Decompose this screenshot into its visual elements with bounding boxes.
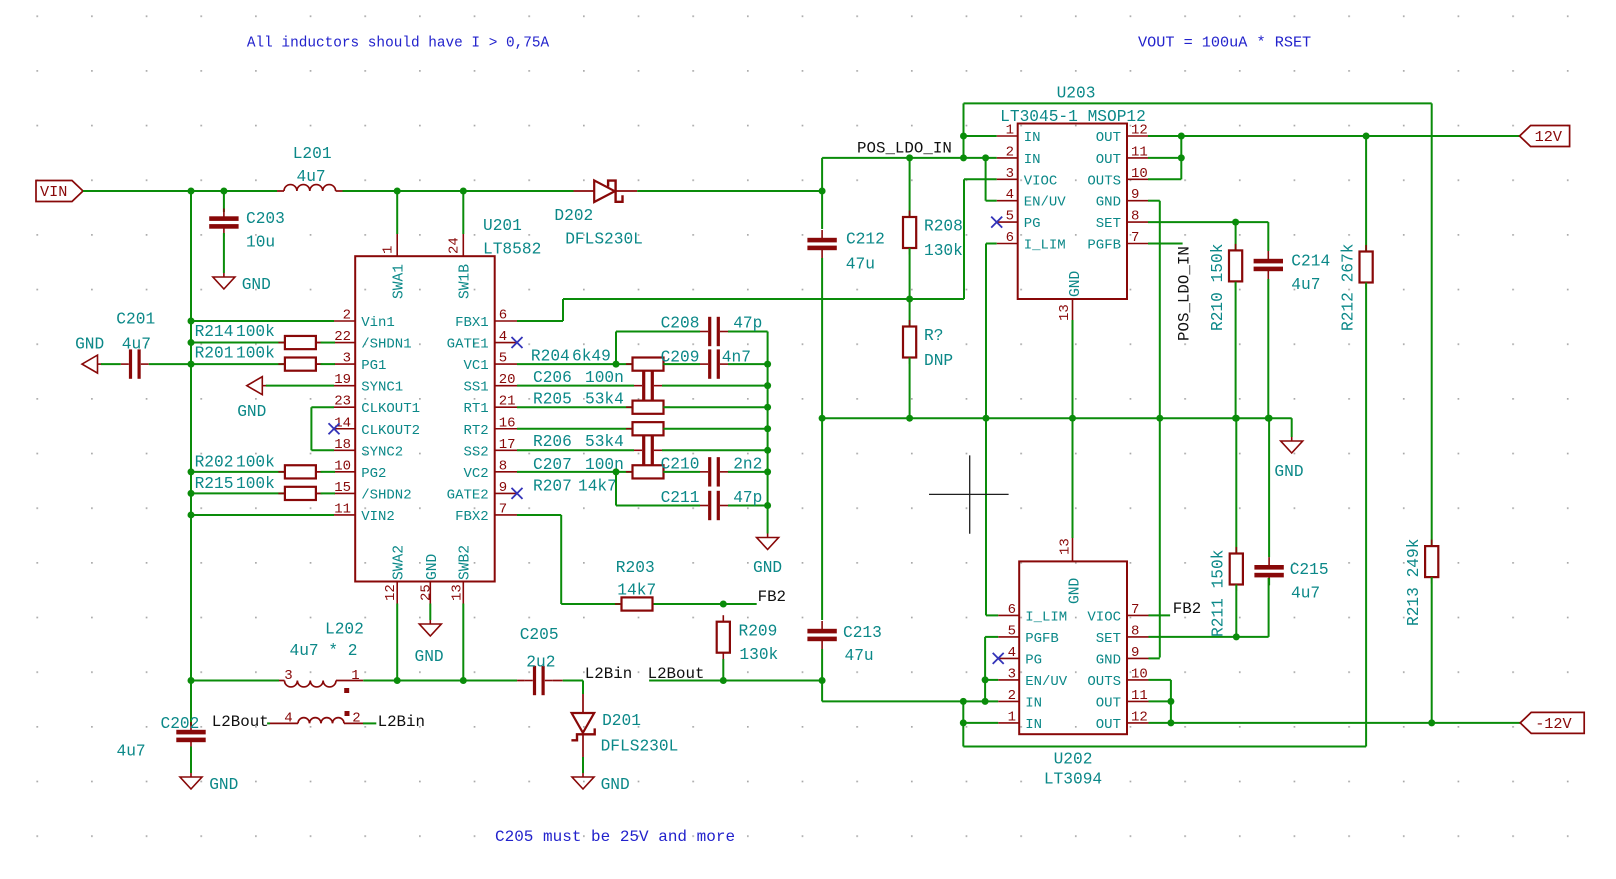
svg-text:R206: R206 [533, 433, 572, 451]
svg-text:SWA1: SWA1 [391, 264, 407, 299]
wire [517, 514, 561, 516]
no-connect GATE1 [512, 337, 523, 348]
wire [963, 722, 998, 724]
wire [821, 158, 823, 229]
wire [321, 471, 336, 473]
svg-text:C214: C214 [1291, 253, 1330, 271]
wire C212 to gnd bus [821, 258, 823, 418]
wire [191, 320, 334, 322]
svg-text:5: 5 [1006, 209, 1014, 225]
ground (bus) [1291, 437, 1293, 441]
wire SWA2 down [396, 604, 398, 681]
junction SWA1 [394, 188, 401, 195]
svg-text:23: 23 [334, 394, 351, 410]
svg-text:SWA2: SWA2 [391, 545, 407, 580]
wire [662, 385, 768, 387]
wire to pin24 [462, 191, 464, 234]
wire [149, 363, 191, 365]
svg-text:I_LIM: I_LIM [1025, 609, 1067, 625]
pin stub [334, 428, 355, 430]
svg-text:12V: 12V [1535, 128, 1563, 146]
junction [188, 511, 195, 518]
wire [663, 428, 767, 430]
svg-text:VOUT = 100uA * RSET: VOUT = 100uA * RSET [1138, 34, 1311, 52]
resistor R204 6k49 [626, 363, 670, 365]
svg-text:FB2: FB2 [758, 588, 786, 606]
wire [1170, 680, 1172, 723]
svg-text:53k4: 53k4 [585, 433, 624, 451]
svg-text:2: 2 [1006, 144, 1014, 160]
wire FBX1 up to U203 VIOC [963, 179, 965, 299]
wire [311, 406, 334, 408]
wire [223, 233, 225, 273]
svg-text:R209: R209 [739, 623, 778, 641]
svg-text:1: 1 [351, 668, 359, 684]
svg-text:130k: 130k [924, 242, 963, 260]
junction SW1B [460, 188, 467, 195]
junction gnd bus / C212 [819, 415, 826, 422]
svg-text:2: 2 [343, 308, 351, 324]
junction FBX1/R208 [906, 296, 913, 303]
svg-text:3: 3 [1006, 166, 1014, 182]
wire [1180, 136, 1182, 179]
wire L202 to C205 [363, 680, 517, 682]
svg-text:100k: 100k [236, 454, 275, 472]
junction gnd bus / R210 [1232, 415, 1239, 422]
svg-text:R215: R215 [195, 475, 234, 493]
ground (U201 pin25) [429, 620, 431, 624]
junction gnd bus / R211 [1233, 415, 1240, 422]
svg-text:VIOC: VIOC [1024, 173, 1058, 189]
svg-text:24: 24 [447, 237, 463, 254]
svg-text:SYNC1: SYNC1 [361, 380, 403, 396]
junction EN/UV tie [982, 154, 989, 161]
svg-text:4: 4 [499, 329, 507, 345]
svg-text:6k49: 6k49 [572, 348, 611, 366]
pin stub [998, 657, 1019, 659]
svg-text:VC2: VC2 [463, 466, 488, 482]
crosshair cursor [929, 455, 1009, 533]
svg-text:D202: D202 [554, 207, 593, 225]
resistor R213 249k [1431, 540, 1433, 584]
svg-text:C205: C205 [520, 626, 559, 644]
svg-text:20: 20 [499, 372, 516, 388]
wire [562, 299, 564, 321]
svg-text:47p: 47p [733, 489, 762, 507]
svg-text:18: 18 [334, 437, 351, 453]
wire [191, 342, 285, 344]
junction [764, 468, 771, 475]
wire [191, 471, 285, 473]
svg-text:L2Bout: L2Bout [212, 713, 269, 731]
junction [188, 490, 195, 497]
pin stub [616, 190, 638, 192]
pin stub [334, 514, 355, 516]
svg-text:6: 6 [499, 308, 507, 324]
svg-text:IN: IN [1025, 695, 1042, 711]
wire [363, 722, 376, 724]
wire [1235, 418, 1237, 553]
junction [188, 318, 195, 325]
wire to pin1 [396, 191, 398, 234]
ground (C202) [190, 773, 192, 777]
junction OUT pin12 [1178, 133, 1185, 140]
wire [728, 471, 768, 473]
svg-text:R213 249k: R213 249k [1405, 539, 1423, 626]
wire [722, 659, 724, 681]
svg-text:IN: IN [1025, 717, 1042, 733]
wire [1235, 585, 1237, 637]
svg-text:GATE1: GATE1 [447, 337, 489, 353]
wire [985, 158, 987, 201]
pin stub [1127, 679, 1149, 681]
svg-text:25: 25 [418, 584, 434, 601]
resistor R203 14k7 [615, 603, 659, 605]
wire [191, 492, 285, 494]
wire [517, 320, 563, 322]
svg-text:L201: L201 [293, 145, 332, 163]
svg-text:R203: R203 [616, 559, 655, 577]
wire [964, 102, 1432, 104]
wire [909, 358, 911, 419]
ground below C203 [223, 273, 225, 277]
svg-text:47u: 47u [846, 256, 875, 274]
svg-text:3: 3 [343, 351, 351, 367]
svg-text:2: 2 [1008, 688, 1016, 704]
svg-text:RT2: RT2 [463, 423, 488, 439]
svg-text:GND: GND [1068, 270, 1084, 297]
svg-text:SET: SET [1096, 216, 1121, 232]
wire C208 left leg [615, 332, 617, 365]
wire IN rail down [962, 701, 964, 746]
resistor R209 130k [722, 615, 724, 659]
wire [101, 363, 121, 365]
junction R211 bottom [1233, 633, 1240, 640]
pin stub [495, 514, 517, 516]
svg-text:C212: C212 [846, 231, 885, 249]
svg-text:CLKOUT1: CLKOUT1 [361, 401, 420, 417]
wire [662, 449, 768, 451]
junction R209 top [720, 601, 727, 608]
svg-text:L2Bin: L2Bin [378, 713, 425, 731]
svg-text:FBX1: FBX1 [455, 315, 489, 331]
svg-text:GND: GND [1068, 577, 1084, 604]
pin stub [998, 614, 1019, 616]
pin stub [316, 471, 321, 473]
svg-text:All inductors should have I >: All inductors should have I > 0,75A [247, 36, 550, 52]
wire [728, 331, 768, 333]
svg-text:GND: GND [425, 553, 441, 580]
wire C211 left leg [615, 472, 617, 506]
junction IN1 [960, 719, 967, 726]
wire [663, 363, 700, 365]
pin stub [336, 190, 343, 192]
junction OUT pin11 (U202) [1167, 698, 1174, 705]
svg-text:7: 7 [1131, 230, 1139, 246]
svg-text:6: 6 [1006, 230, 1014, 246]
wire [517, 428, 633, 430]
svg-text:/SHDN1: /SHDN1 [361, 337, 411, 353]
wire [909, 248, 911, 299]
wire [517, 471, 633, 473]
svg-text:100n: 100n [585, 369, 624, 387]
wire [311, 449, 334, 451]
svg-text:14k7: 14k7 [578, 477, 617, 495]
wire C205 to L2Bin corner [563, 680, 583, 682]
svg-text:12: 12 [1131, 709, 1148, 725]
wire [1235, 282, 1237, 418]
svg-text:-12V: -12V [1535, 715, 1572, 733]
svg-text:R214: R214 [195, 323, 234, 341]
pin stub [334, 406, 355, 408]
svg-text:EN/UV: EN/UV [1025, 674, 1068, 690]
pin stub [582, 694, 584, 713]
junction OUT pin12 (U202) [1167, 719, 1174, 726]
svg-text:14k7: 14k7 [617, 582, 656, 600]
svg-text:47u: 47u [845, 647, 874, 665]
pin stub [998, 700, 1019, 702]
pin stub [396, 582, 398, 604]
svg-text:OUT: OUT [1096, 152, 1121, 168]
pin stub [1127, 700, 1149, 702]
wire [663, 471, 700, 473]
svg-text:22: 22 [334, 329, 351, 345]
svg-text:5: 5 [1008, 623, 1016, 639]
svg-text:17: 17 [499, 437, 516, 453]
wire VIOC row [964, 178, 997, 180]
svg-text:47p: 47p [733, 314, 762, 332]
wire [728, 505, 768, 507]
wire [310, 407, 312, 450]
pin stub [495, 471, 517, 473]
pin stub [334, 363, 355, 365]
svg-text:C213: C213 [843, 624, 882, 642]
svg-text:15: 15 [334, 480, 351, 496]
junction gnd bus / RDNP [906, 415, 913, 422]
svg-text:8: 8 [1131, 209, 1139, 225]
wire [321, 492, 336, 494]
svg-text:OUTS: OUTS [1087, 674, 1121, 690]
wire [1149, 679, 1171, 681]
pin stub [334, 342, 355, 344]
pin stub [316, 342, 321, 344]
wire [223, 191, 225, 212]
svg-text:PG: PG [1025, 652, 1042, 668]
svg-text:PGFB: PGFB [1025, 631, 1059, 647]
junction gnd bus / C215 [1266, 415, 1273, 422]
wire [190, 747, 192, 774]
svg-text:U201: U201 [483, 217, 522, 235]
junction [764, 502, 771, 509]
pin stub [997, 200, 1018, 202]
wire [191, 680, 279, 682]
wire [1149, 700, 1171, 702]
pin stub [495, 320, 517, 322]
svg-text:U203: U203 [1057, 85, 1096, 103]
junction C208 leg [613, 361, 620, 368]
junction R212 top [1363, 133, 1370, 140]
svg-text:C211: C211 [661, 489, 700, 507]
pin stub [1127, 657, 1149, 659]
pin stub [997, 243, 1018, 245]
junction POS_LDO_IN tap [819, 188, 826, 195]
wire [517, 385, 634, 387]
pin stub [316, 492, 321, 494]
pin stub [396, 234, 398, 256]
wire [560, 515, 562, 604]
wire [1431, 577, 1433, 723]
pin stub [316, 363, 321, 365]
wire VIN to L201 [83, 190, 277, 192]
global label VIN [36, 181, 83, 202]
wire [663, 406, 767, 408]
wire [616, 505, 700, 507]
svg-text:10: 10 [1131, 666, 1148, 682]
wire [986, 200, 997, 202]
svg-text:5: 5 [499, 351, 507, 367]
wire [517, 363, 633, 365]
svg-text:6: 6 [1008, 602, 1016, 618]
junction C202 tap [188, 677, 195, 684]
wire pin1 row [964, 135, 997, 137]
svg-text:R207: R207 [533, 477, 572, 495]
junction SWA2 [394, 677, 401, 684]
svg-text:DFLS230L: DFLS230L [565, 230, 643, 248]
pin stub [279, 680, 285, 682]
junction gnd bus / pin9 [1156, 415, 1163, 422]
junction IN rail [960, 698, 967, 705]
svg-text:R202: R202 [195, 454, 234, 472]
wire C213 to L2Bout row [821, 649, 823, 701]
svg-text:4u7: 4u7 [122, 336, 151, 354]
wire [986, 243, 997, 245]
svg-text:RT1: RT1 [463, 401, 488, 417]
pin stub [997, 221, 1018, 223]
wire [563, 298, 964, 300]
pin stub [997, 135, 1018, 137]
wire top loop down to R213 [1431, 103, 1433, 546]
svg-text:VC1: VC1 [463, 358, 488, 374]
ground (cluster) [767, 534, 769, 538]
wire [767, 332, 769, 534]
junction R209 bottom [720, 677, 727, 684]
wire [191, 363, 285, 365]
junction OUT pin11 [1178, 154, 1185, 161]
pin stub [1127, 178, 1148, 180]
svg-text:R201: R201 [195, 345, 234, 363]
wire [1148, 221, 1268, 223]
svg-text:VIN2: VIN2 [361, 509, 395, 525]
no-connect GATE2 [512, 488, 523, 499]
svg-text:I_LIM: I_LIM [1024, 238, 1066, 254]
wire [190, 681, 192, 726]
svg-text:POS_LDO_IN: POS_LDO_IN [1176, 246, 1194, 341]
junction IN pin2 [960, 154, 967, 161]
svg-text:L202: L202 [325, 621, 364, 639]
junction C211 leg [613, 468, 620, 475]
no-connect U203 PG [991, 217, 1002, 228]
svg-text:PGFB: PGFB [1087, 238, 1121, 254]
svg-text:DFLS230L: DFLS230L [601, 737, 679, 755]
wire L201 to D202 [343, 190, 574, 192]
svg-text:130k: 130k [739, 646, 778, 664]
pin stub [574, 190, 595, 192]
wire [963, 700, 998, 702]
wire [1148, 178, 1181, 180]
wire [1148, 200, 1160, 202]
svg-text:DNP: DNP [924, 352, 953, 370]
svg-text:GND: GND [1274, 463, 1303, 481]
wire [582, 681, 584, 695]
pin stub [553, 680, 563, 682]
svg-text:OUTS: OUTS [1087, 173, 1121, 189]
svg-text:8: 8 [1131, 623, 1139, 639]
svg-text:GND: GND [242, 276, 271, 294]
ground (SYNC1) [247, 377, 262, 395]
wire [1149, 657, 1160, 659]
wire [1149, 636, 1269, 638]
svg-text:11: 11 [334, 501, 351, 517]
wire [561, 603, 620, 605]
svg-text:GND: GND [237, 403, 266, 421]
svg-text:SWB2: SWB2 [458, 545, 474, 580]
svg-text:100k: 100k [236, 475, 275, 493]
wire R203 to FB2 [654, 603, 757, 605]
svg-text:EN/UV: EN/UV [1024, 195, 1067, 211]
wire [822, 157, 997, 159]
junction [188, 468, 195, 475]
pin stub [277, 190, 284, 192]
wire pin25 to gnd [429, 604, 431, 621]
svg-text:U202: U202 [1054, 751, 1093, 769]
svg-text:10: 10 [334, 458, 351, 474]
pin stub [334, 449, 355, 451]
svg-text:GATE2: GATE2 [447, 487, 489, 503]
global label -12V [1520, 712, 1584, 733]
svg-text:GND: GND [1096, 652, 1121, 668]
svg-text:100k: 100k [236, 323, 275, 341]
wire [1291, 418, 1293, 437]
pin stub [495, 428, 517, 430]
wire [1072, 320, 1074, 418]
wire [517, 406, 633, 408]
pin stub [495, 342, 517, 344]
pin stub [334, 320, 355, 322]
svg-text:12: 12 [1131, 123, 1148, 139]
junction [188, 339, 195, 346]
svg-text:C201: C201 [116, 311, 155, 329]
wire gnd bus down to C213 [821, 418, 823, 620]
pin stub [1127, 614, 1149, 616]
svg-text:/SHDN2: /SHDN2 [361, 487, 411, 503]
svg-text:VIN: VIN [40, 183, 67, 201]
pin stub [336, 680, 363, 682]
junction gnd bus / C214 [1265, 415, 1272, 422]
svg-text:14: 14 [334, 415, 351, 431]
pin stub [495, 492, 517, 494]
svg-text:3: 3 [1008, 666, 1016, 682]
pin stub [582, 735, 584, 757]
svg-text:4n7: 4n7 [722, 348, 751, 366]
svg-text:10: 10 [1131, 166, 1148, 182]
junction [764, 361, 771, 368]
svg-text:R211 150k: R211 150k [1210, 550, 1228, 637]
svg-text:GND: GND [209, 776, 238, 794]
svg-text:4u7: 4u7 [297, 168, 326, 186]
wire L2Bout to U202 IN [822, 700, 963, 702]
pin stub [495, 385, 517, 387]
svg-text:16: 16 [499, 415, 516, 431]
